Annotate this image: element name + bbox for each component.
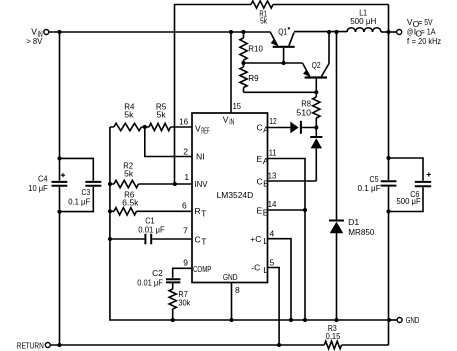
resistor R5 — [149, 101, 171, 130]
wire C3 loop — [60, 158, 94, 211]
svg-text:T: T — [201, 237, 206, 247]
node Q2 collector junction — [327, 30, 331, 34]
svg-text:500 μH: 500 μH — [350, 16, 376, 26]
svg-text:REF: REF — [201, 126, 209, 136]
svg-text:16: 16 — [179, 117, 188, 127]
svg-text:COMP: COMP — [193, 264, 212, 274]
capacitor C1 — [138, 216, 164, 245]
svg-text:V: V — [223, 114, 229, 124]
wire RT pin6 — [110, 210, 192, 212]
node output junction — [386, 30, 390, 34]
wire return rail — [50, 344, 388, 346]
svg-text:IN: IN — [229, 116, 234, 126]
svg-text:15: 15 — [233, 101, 242, 111]
node bus-C1 junction — [108, 237, 112, 241]
wire GND pin8 — [231, 283, 233, 320]
svg-text:30k: 30k — [178, 298, 191, 308]
svg-text:E: E — [257, 154, 263, 164]
svg-text:INV: INV — [195, 179, 208, 189]
wire -CL pin5 down to return rail — [268, 268, 280, 346]
resistor R6 — [114, 189, 139, 215]
node Q2 base junction — [314, 90, 318, 94]
resistor R10 — [240, 32, 263, 63]
node C6 top junction — [386, 156, 390, 160]
terminal VOUT — [389, 30, 402, 35]
svg-text:= 20 kHz: = 20 kHz — [412, 36, 441, 46]
svg-text:MR850: MR850 — [348, 227, 374, 237]
resistor R9 — [240, 63, 259, 92]
svg-text:Q2: Q2 — [312, 60, 321, 70]
wire base rail Q1 — [244, 62, 303, 64]
svg-text:0.15: 0.15 — [326, 331, 341, 341]
capacitor C3 — [68, 182, 101, 207]
svg-text:L: L — [263, 265, 268, 275]
wire +CL pin4 down to gnd rail — [268, 239, 292, 320]
svg-text:RETURN: RETURN — [17, 340, 44, 350]
svg-text:510: 510 — [296, 108, 311, 118]
svg-text:4: 4 — [270, 228, 275, 238]
op-amp IC U1 LM3524D — [192, 113, 269, 283]
capacitor C2 — [137, 268, 180, 287]
wire COMP pin9 — [173, 268, 192, 278]
svg-text:0.1 μF: 0.1 μF — [358, 183, 381, 193]
wire NI pin2 from divider — [145, 127, 192, 156]
node VIN junction — [57, 30, 61, 34]
svg-text:D1: D1 — [348, 217, 359, 227]
wire CA pin12 — [268, 127, 317, 129]
svg-text:6.5k: 6.5k — [122, 197, 139, 207]
svg-text:5: 5 — [270, 257, 275, 267]
svg-text:0.01 μF: 0.01 μF — [138, 224, 164, 234]
node D1 top junction — [334, 30, 338, 34]
resistor R4 — [114, 101, 142, 130]
svg-text:7: 7 — [183, 225, 188, 235]
svg-text:14: 14 — [268, 199, 277, 209]
svg-text:5k: 5k — [260, 16, 267, 26]
svg-text:-C: -C — [251, 263, 260, 273]
wire CB pin13 — [268, 180, 317, 182]
svg-text:GND: GND — [406, 315, 420, 325]
svg-text:NI: NI — [196, 152, 205, 162]
wire top feedback from output to R1 and INV line — [175, 5, 389, 185]
diode CA series — [290, 121, 301, 134]
svg-text:C4: C4 — [38, 174, 48, 184]
wire EB pin14 — [268, 209, 306, 211]
node gnd-output bus junction — [387, 318, 391, 322]
svg-text:A: A — [263, 125, 269, 135]
wire INV pin1 — [110, 183, 192, 185]
node EA-EB junction — [303, 208, 307, 212]
inductor L1 — [347, 8, 389, 32]
svg-text:> 8V: > 8V — [26, 36, 42, 46]
transistor Q2 — [303, 32, 329, 92]
svg-text:0.1 μF: 0.1 μF — [68, 197, 90, 207]
svg-text:5k: 5k — [157, 110, 167, 120]
terminal GND — [389, 315, 419, 325]
svg-text:R10: R10 — [248, 44, 263, 54]
svg-text:C: C — [257, 123, 263, 133]
svg-text:C: C — [195, 235, 201, 245]
node +CL gnd junction — [289, 318, 293, 322]
svg-text:C: C — [257, 176, 263, 186]
svg-text:5k: 5k — [124, 169, 134, 179]
capacitor C4 — [28, 173, 67, 193]
wire IC VIN pin15 to rail — [230, 32, 232, 113]
transistor Q1 — [270, 26, 295, 63]
svg-text:12: 12 — [269, 116, 277, 126]
svg-text:R: R — [195, 206, 201, 216]
diode CB-CA vertical — [310, 128, 322, 182]
svg-text:LM3524D: LM3524D — [217, 190, 254, 200]
svg-text:Q1: Q1 — [278, 26, 287, 36]
node bus-R2 junction — [108, 182, 112, 186]
terminal RETURN — [17, 340, 51, 350]
node EA gnd junction — [303, 318, 307, 322]
resistor R7 — [169, 283, 191, 320]
svg-text:8: 8 — [235, 285, 240, 295]
svg-text:+C: +C — [250, 234, 261, 244]
node R10 top junction — [241, 30, 245, 34]
svg-text:500 μF: 500 μF — [397, 196, 421, 206]
resistor R3 — [324, 323, 341, 349]
svg-text:A: A — [263, 156, 269, 166]
wire left input bus (interrupted by C4) — [59, 32, 61, 345]
svg-text:V: V — [195, 123, 201, 133]
svg-text:E: E — [257, 205, 263, 215]
svg-text:11: 11 — [269, 147, 277, 157]
svg-text:6: 6 — [182, 200, 187, 210]
svg-text:1: 1 — [184, 172, 189, 182]
resistor R2 — [114, 161, 139, 188]
node CA-R8 junction — [314, 125, 318, 129]
svg-text:V: V — [31, 27, 37, 37]
svg-text:C3: C3 — [82, 187, 91, 197]
wire VIN supply rail — [49, 31, 270, 33]
terminal VIN — [26, 27, 49, 47]
diode D1 — [329, 32, 375, 320]
node pin15 junction — [229, 30, 233, 34]
node D1 bottom junction — [334, 318, 338, 322]
resistor R1 — [251, 1, 273, 26]
node Q1 base junction — [282, 61, 286, 65]
svg-text:5k: 5k — [124, 110, 134, 120]
node R4-R5 junction — [143, 125, 147, 129]
node R10 bottom junction — [241, 61, 245, 65]
wire right output bus (interrupted by C5) — [388, 5, 390, 346]
node C3 bottom junction — [57, 210, 61, 214]
node C6 bottom junction — [386, 209, 390, 213]
capacitor C6 — [397, 172, 432, 206]
svg-text:T: T — [201, 208, 206, 218]
node return-bus junction — [57, 343, 61, 347]
wire C6 loop — [389, 158, 424, 212]
wire pin16 VREF — [110, 126, 192, 128]
svg-text:10 μF: 10 μF — [28, 183, 47, 193]
svg-text:2: 2 — [183, 146, 188, 156]
wire CT pin7 — [110, 238, 192, 240]
svg-text:0.01 μF: 0.01 μF — [137, 277, 163, 287]
node R7 gnd junction — [171, 318, 175, 322]
node C3 top junction — [57, 156, 61, 160]
node INV junction — [173, 182, 177, 186]
svg-text:9: 9 — [183, 257, 188, 267]
node pin8 gnd junction — [229, 318, 233, 322]
svg-text:13: 13 — [268, 170, 277, 180]
wire R9 to Q2 base node — [244, 91, 317, 93]
wire EA pin11 down to gnd rail — [268, 159, 306, 321]
wire Q1 collector to L1 node — [294, 31, 347, 33]
node bus-R6 junction — [108, 209, 112, 213]
svg-text:L: L — [263, 236, 268, 246]
capacitor C5 — [358, 174, 397, 193]
wire left analog bus — [110, 127, 389, 320]
label VOUT — [407, 17, 441, 46]
svg-text:R9: R9 — [248, 73, 259, 83]
node -CL return junction — [277, 343, 281, 347]
svg-text:GND: GND — [223, 272, 238, 282]
resistor R8 — [296, 92, 320, 127]
